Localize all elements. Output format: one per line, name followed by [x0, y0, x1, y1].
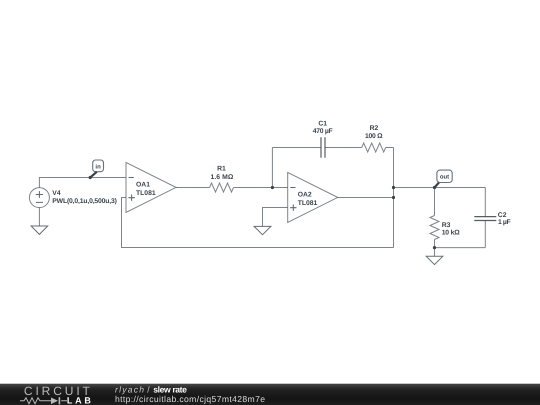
svg-text:TL081: TL081	[136, 190, 156, 197]
svg-text:http://circuitlab.com/cjq57mt4: http://circuitlab.com/cjq57mt428m7e	[115, 394, 265, 404]
svg-text:10 kΩ: 10 kΩ	[442, 230, 461, 237]
svg-text:100 Ω: 100 Ω	[365, 133, 383, 140]
svg-text:470 µF: 470 µF	[313, 128, 333, 135]
svg-text:PWL(0,0,1u,0,500u,3): PWL(0,0,1u,0,500u,3)	[52, 198, 117, 205]
svg-text:C1: C1	[318, 120, 327, 127]
svg-text:out: out	[440, 175, 449, 181]
svg-text:R3: R3	[442, 222, 451, 229]
svg-text:LAB: LAB	[67, 395, 92, 405]
svg-text:V4: V4	[52, 190, 61, 197]
svg-text:C2: C2	[498, 212, 507, 219]
svg-text:OA2: OA2	[298, 192, 312, 199]
svg-text:1 µF: 1 µF	[498, 219, 511, 226]
svg-text:1.6 MΩ: 1.6 MΩ	[211, 174, 234, 181]
svg-text:OA1: OA1	[136, 182, 150, 189]
svg-text:R2: R2	[370, 125, 379, 132]
svg-text:R1: R1	[217, 166, 226, 173]
svg-text:TL081: TL081	[298, 200, 318, 207]
svg-text:in: in	[95, 163, 101, 170]
